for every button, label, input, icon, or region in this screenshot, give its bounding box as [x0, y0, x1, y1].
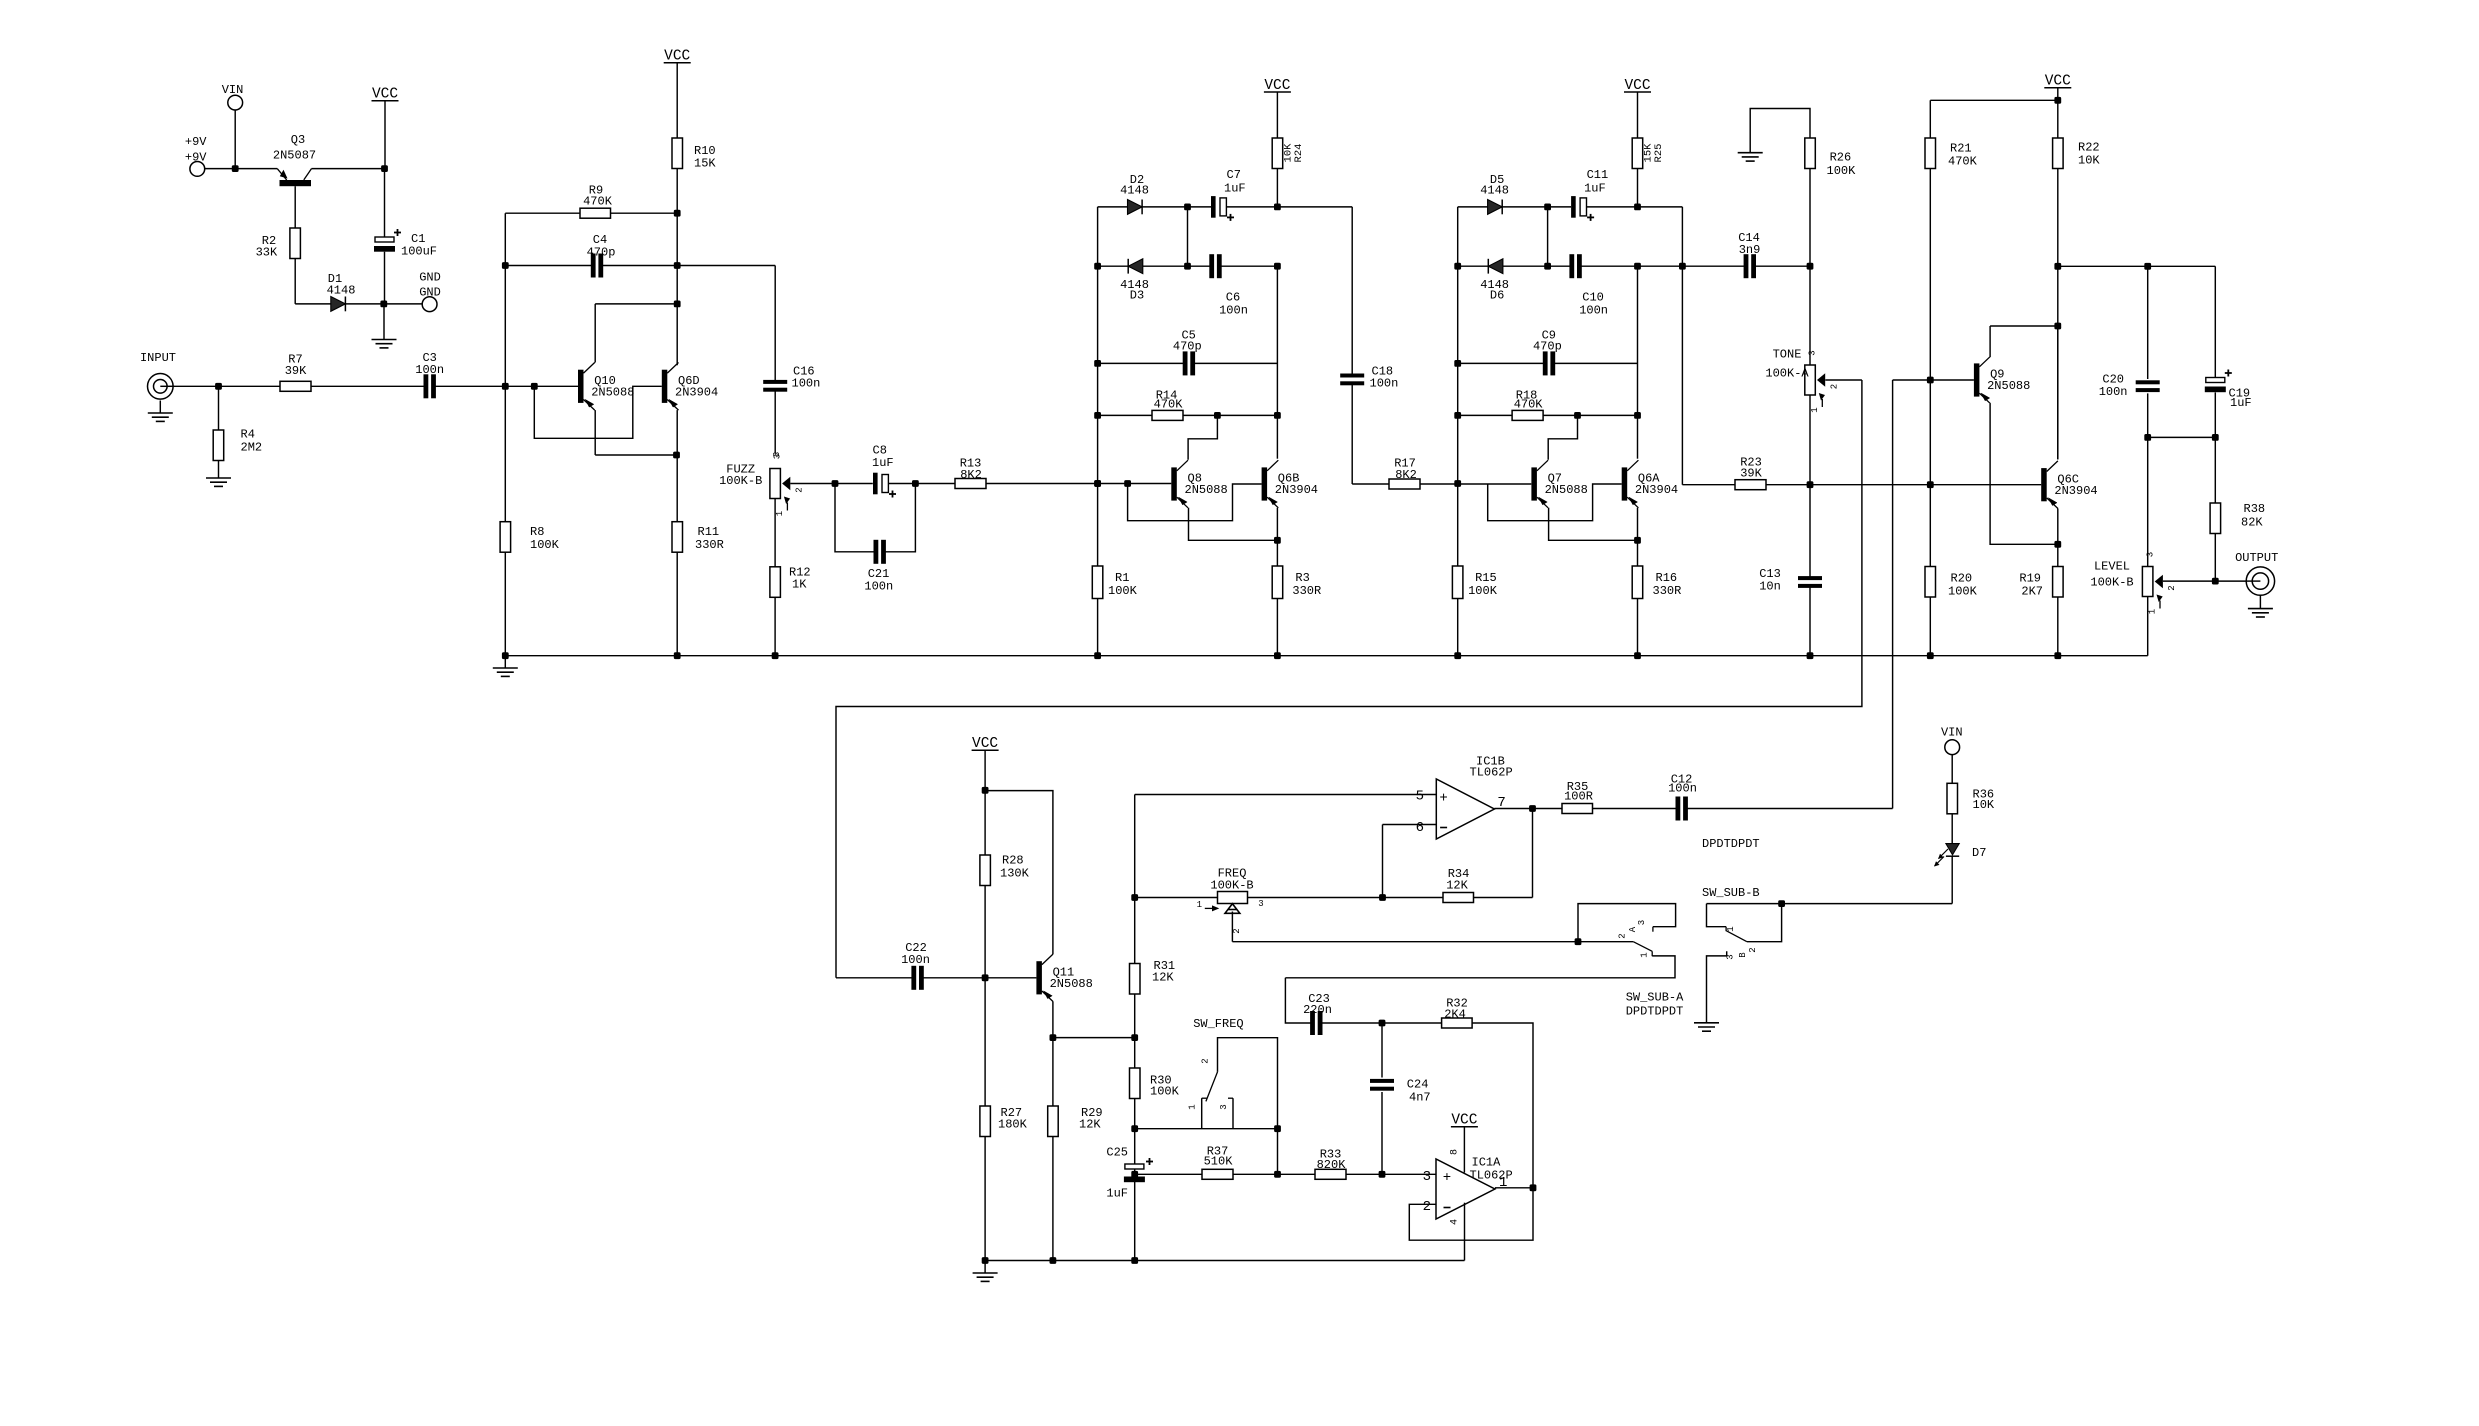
- svg-text:C24: C24: [1407, 1078, 1429, 1092]
- svg-text:10n: 10n: [1759, 580, 1781, 594]
- svg-text:DPDTDPDT: DPDTDPDT: [1702, 837, 1760, 851]
- svg-text:3: 3: [773, 454, 783, 459]
- svg-text:12K: 12K: [1079, 1118, 1101, 1132]
- svg-text:R3: R3: [1295, 571, 1309, 585]
- svg-text:39K: 39K: [1740, 467, 1762, 481]
- svg-text:3n9: 3n9: [1739, 243, 1761, 257]
- svg-text:10K: 10K: [2078, 154, 2100, 168]
- svg-text:100K: 100K: [1108, 584, 1138, 598]
- svg-text:+9V: +9V: [185, 151, 207, 165]
- svg-text:D6: D6: [1490, 289, 1504, 303]
- svg-text:12K: 12K: [1446, 879, 1468, 893]
- svg-text:100K: 100K: [1827, 164, 1857, 178]
- svg-text:B: B: [1738, 952, 1748, 958]
- svg-text:2: 2: [795, 487, 805, 492]
- svg-text:SW_SUB-A: SW_SUB-A: [1626, 991, 1684, 1005]
- svg-text:+: +: [1443, 1170, 1451, 1186]
- svg-text:Q3: Q3: [291, 133, 305, 147]
- svg-text:470K: 470K: [1948, 155, 1978, 169]
- svg-text:2N3904: 2N3904: [675, 386, 718, 400]
- svg-text:5: 5: [1416, 789, 1424, 805]
- svg-text:1uF: 1uF: [1224, 182, 1246, 196]
- svg-text:R15: R15: [1475, 571, 1497, 585]
- svg-text:100n: 100n: [901, 953, 930, 967]
- svg-text:1: 1: [1188, 1104, 1198, 1109]
- svg-text:330R: 330R: [1653, 584, 1682, 598]
- svg-text:100n: 100n: [1370, 377, 1399, 391]
- svg-text:470p: 470p: [587, 246, 616, 260]
- svg-text:8K2: 8K2: [960, 468, 982, 482]
- svg-text:8K2: 8K2: [1395, 468, 1417, 482]
- svg-text:+9V: +9V: [185, 135, 207, 149]
- svg-text:2: 2: [1423, 1199, 1431, 1215]
- svg-text:1: 1: [1640, 952, 1650, 957]
- svg-text:2N5088: 2N5088: [1545, 483, 1588, 497]
- svg-text:3: 3: [1808, 350, 1818, 355]
- svg-text:TONE: TONE: [1773, 348, 1802, 362]
- svg-text:4148: 4148: [1480, 184, 1509, 198]
- svg-text:INPUT: INPUT: [140, 351, 176, 365]
- svg-text:100K: 100K: [1150, 1085, 1180, 1099]
- svg-text:C6: C6: [1226, 291, 1240, 305]
- svg-text:470K: 470K: [583, 195, 613, 209]
- svg-text:2: 2: [2167, 585, 2177, 590]
- svg-text:C7: C7: [1227, 168, 1241, 182]
- svg-text:470K: 470K: [1514, 398, 1544, 412]
- svg-text:2N5088: 2N5088: [1185, 483, 1228, 497]
- svg-text:1uF: 1uF: [2230, 396, 2252, 410]
- svg-text:3: 3: [2145, 552, 2155, 557]
- svg-text:LEVEL: LEVEL: [2094, 560, 2130, 574]
- svg-text:100K: 100K: [530, 538, 560, 552]
- svg-text:D3: D3: [1130, 289, 1144, 303]
- svg-text:82K: 82K: [2241, 516, 2263, 530]
- svg-text:GND: GND: [419, 286, 441, 300]
- svg-text:100R: 100R: [1564, 790, 1593, 804]
- svg-text:1: 1: [1810, 407, 1820, 412]
- svg-text:100n: 100n: [1668, 782, 1697, 796]
- svg-text:2N5088: 2N5088: [1050, 977, 1093, 991]
- svg-text:C11: C11: [1587, 168, 1609, 182]
- svg-text:39K: 39K: [285, 364, 307, 378]
- svg-text:GND: GND: [419, 271, 441, 285]
- svg-text:2: 2: [1232, 928, 1242, 933]
- svg-text:330R: 330R: [695, 538, 724, 552]
- svg-text:510K: 510K: [1204, 1155, 1234, 1169]
- svg-text:100n: 100n: [1579, 304, 1608, 318]
- svg-text:1K: 1K: [792, 578, 807, 592]
- svg-text:100n: 100n: [864, 580, 893, 594]
- svg-text:33K: 33K: [256, 246, 278, 260]
- svg-text:100uF: 100uF: [401, 245, 437, 259]
- svg-text:A: A: [1628, 926, 1638, 932]
- svg-text:2N3904: 2N3904: [1275, 483, 1318, 497]
- svg-text:1: 1: [2148, 609, 2158, 614]
- svg-text:8: 8: [1450, 1149, 1461, 1155]
- svg-text:100n: 100n: [792, 377, 821, 391]
- svg-text:100K: 100K: [1948, 585, 1978, 599]
- svg-text:R24: R24: [1293, 144, 1305, 163]
- svg-text:1: 1: [775, 511, 785, 516]
- svg-text:VIN: VIN: [222, 83, 244, 97]
- svg-text:220n: 220n: [1303, 1003, 1332, 1017]
- svg-text:2N5087: 2N5087: [273, 149, 316, 163]
- svg-text:100K-B: 100K-B: [719, 474, 762, 488]
- svg-text:4148: 4148: [1120, 184, 1149, 198]
- svg-text:3: 3: [1258, 899, 1263, 909]
- svg-text:R20: R20: [1951, 572, 1973, 586]
- svg-text:R4: R4: [241, 428, 255, 442]
- svg-text:100K-A: 100K-A: [1765, 367, 1809, 381]
- svg-text:2: 2: [1830, 384, 1840, 389]
- svg-text:470p: 470p: [1173, 340, 1202, 354]
- svg-text:15K: 15K: [694, 156, 716, 170]
- svg-text:6: 6: [1416, 820, 1424, 836]
- svg-text:470p: 470p: [1533, 340, 1562, 354]
- svg-text:3: 3: [1219, 1104, 1229, 1109]
- svg-text:2M2: 2M2: [241, 441, 263, 455]
- svg-text:2N3904: 2N3904: [1635, 483, 1678, 497]
- svg-text:R22: R22: [2078, 141, 2100, 155]
- svg-text:1: 1: [1197, 900, 1202, 910]
- svg-text:470K: 470K: [1154, 398, 1184, 412]
- svg-text:R11: R11: [698, 525, 720, 539]
- svg-text:R38: R38: [2244, 502, 2266, 516]
- svg-text:R16: R16: [1656, 571, 1678, 585]
- svg-text:2N5088: 2N5088: [591, 386, 634, 400]
- svg-text:1uF: 1uF: [1584, 182, 1606, 196]
- svg-text:2K4: 2K4: [1444, 1008, 1466, 1022]
- svg-text:1: 1: [1726, 926, 1736, 931]
- svg-text:C25: C25: [1106, 1146, 1128, 1160]
- svg-text:4n7: 4n7: [1409, 1091, 1431, 1105]
- svg-text:3: 3: [1637, 920, 1647, 925]
- svg-text:IC1A: IC1A: [1472, 1156, 1502, 1170]
- svg-text:2K7: 2K7: [2021, 585, 2043, 599]
- svg-text:R25: R25: [1653, 144, 1665, 163]
- svg-text:D7: D7: [1972, 846, 1986, 860]
- svg-text:R1: R1: [1115, 571, 1129, 585]
- svg-text:2N3904: 2N3904: [2054, 484, 2097, 498]
- svg-text:VIN: VIN: [1941, 726, 1963, 740]
- svg-text:2N5088: 2N5088: [1987, 379, 2030, 393]
- svg-text:180K: 180K: [998, 1118, 1028, 1132]
- svg-text:2: 2: [1201, 1058, 1211, 1063]
- svg-text:330R: 330R: [1292, 584, 1321, 598]
- svg-text:R8: R8: [530, 525, 544, 539]
- svg-text:100K: 100K: [1468, 584, 1498, 598]
- svg-text:+: +: [1439, 791, 1447, 807]
- svg-text:100n: 100n: [1219, 304, 1248, 318]
- svg-text:OUTPUT: OUTPUT: [2235, 551, 2278, 565]
- svg-text:820K: 820K: [1317, 1158, 1347, 1172]
- svg-text:SW_SUB-B: SW_SUB-B: [1702, 886, 1760, 900]
- svg-text:2: 2: [1618, 933, 1628, 938]
- svg-text:2: 2: [1748, 947, 1758, 952]
- svg-text:1uF: 1uF: [1106, 1187, 1128, 1201]
- svg-text:R21: R21: [1950, 142, 1972, 156]
- svg-text:4148: 4148: [327, 284, 356, 298]
- svg-text:100n: 100n: [2099, 385, 2128, 399]
- svg-text:TL062P: TL062P: [1470, 1169, 1513, 1183]
- svg-text:130K: 130K: [1000, 867, 1030, 881]
- svg-text:100K-B: 100K-B: [1210, 879, 1253, 893]
- svg-text:R19: R19: [2019, 572, 2041, 586]
- svg-text:3: 3: [1726, 954, 1736, 959]
- svg-text:C10: C10: [1582, 291, 1604, 305]
- svg-text:12K: 12K: [1152, 971, 1174, 985]
- svg-text:100n: 100n: [415, 363, 444, 377]
- svg-text:3: 3: [1423, 1169, 1431, 1185]
- svg-text:4: 4: [1450, 1219, 1461, 1225]
- svg-text:R28: R28: [1002, 854, 1024, 868]
- svg-text:SW_FREQ: SW_FREQ: [1193, 1017, 1243, 1031]
- svg-text:100K-B: 100K-B: [2090, 576, 2133, 590]
- svg-text:1uF: 1uF: [872, 456, 894, 470]
- svg-text:DPDTDPDT: DPDTDPDT: [1626, 1005, 1684, 1019]
- svg-text:10K: 10K: [1973, 798, 1995, 812]
- svg-text:R26: R26: [1830, 151, 1852, 165]
- svg-text:TL062P: TL062P: [1470, 766, 1513, 780]
